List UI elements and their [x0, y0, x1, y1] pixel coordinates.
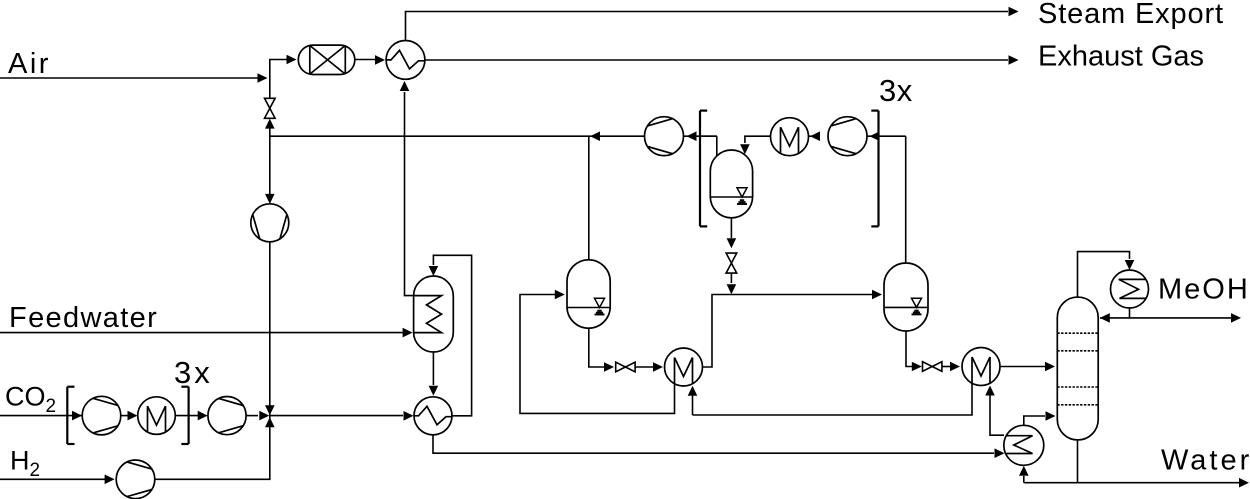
arrow flash into junction	[727, 284, 737, 294]
arrow into separator D2	[872, 290, 882, 300]
wire E4 to E3 bottoms link	[693, 384, 973, 415]
wire hot stream into E3 bottom	[692, 394, 694, 415]
column tray 4	[1057, 404, 1098, 406]
separator vessel D1	[567, 260, 610, 328]
arrow into mix junction from air	[265, 405, 275, 415]
arrow into E5 bottom	[1019, 466, 1029, 476]
arrow into recycle compressor K5	[687, 131, 697, 141]
wire junction up to combustor inlet	[270, 60, 287, 79]
arrow before valve V2	[604, 362, 614, 372]
wire E2 outlet loop to drum top	[433, 255, 471, 415]
wire recycle rail	[270, 135, 717, 137]
arrow CO2 into mix junction	[259, 411, 269, 421]
arrow into bottoms exchanger E5	[995, 448, 1005, 458]
wire H2 compressor to mix junction	[155, 416, 270, 480]
level indicator D1	[567, 307, 610, 309]
wire stage feed drop	[745, 136, 771, 143]
svg-text:Feedwater: Feedwater	[9, 302, 158, 334]
wire valve V4 to exchanger E4	[942, 366, 950, 368]
flue gas heat exchanger E1	[386, 41, 425, 80]
arrow into CO2 compressor	[72, 411, 82, 421]
svg-text:Steam Export: Steam Export	[1038, 0, 1224, 30]
arrow H2 into mix junction	[265, 417, 275, 427]
arrow into steam drum top	[429, 266, 439, 276]
combustor X1 cross	[309, 46, 311, 75]
syngas heat exchanger E2	[414, 397, 452, 435]
wire H2 line	[0, 478, 105, 480]
wire drum bottom to E2 top	[432, 352, 434, 385]
arrow into stage vessel top	[740, 144, 750, 154]
arrow feed into column	[1045, 362, 1055, 372]
wire K2 to motor M1	[121, 415, 128, 417]
wire steam export line	[406, 12, 1009, 41]
CO2 compressor K3	[208, 397, 246, 435]
flash valve V3	[726, 253, 737, 263]
arrow into E3 bottom	[688, 386, 698, 396]
arrow Air into junction	[258, 73, 268, 83]
motor M2	[771, 118, 809, 156]
liquid valve V4	[923, 362, 933, 372]
wire valve V2 to exchanger E3	[635, 366, 653, 368]
svg-text:Exhaust Gas: Exhaust Gas	[1038, 41, 1204, 73]
stage vessel D3	[710, 150, 752, 218]
wire Air inlet	[0, 77, 258, 79]
arrow into H2 compressor	[105, 475, 115, 485]
svg-text:3x: 3x	[879, 73, 913, 108]
arrow preheated feed into column	[1046, 411, 1056, 421]
wire D2 bottoms to valve	[906, 331, 912, 367]
wire valve to air junction	[269, 78, 271, 98]
wire flash valve V3 down	[730, 273, 732, 283]
separator vessel D2	[884, 263, 928, 331]
purge valve V1	[265, 98, 276, 108]
wire water line	[1024, 482, 1239, 484]
wire feedwater line	[0, 332, 404, 334]
wire bottoms up into E5	[1023, 476, 1025, 483]
arrow before flash valve V3	[727, 238, 737, 248]
level indicator D3	[710, 196, 752, 198]
arrow into separator D1	[555, 290, 565, 300]
arrow into air compressor	[265, 194, 275, 204]
svg-text:Air: Air	[8, 48, 51, 80]
wire D1 bottoms to valve	[589, 328, 604, 367]
wire CO2 line	[0, 415, 82, 417]
wire preheated feed into column	[1024, 416, 1045, 426]
steam drum coil	[414, 296, 442, 333]
arrow feedwater into steam drum	[403, 328, 413, 338]
level indicator D2	[884, 306, 928, 308]
arrow into heat exchanger E2	[404, 411, 414, 421]
wire motor M2 to compressor K6	[809, 135, 821, 137]
wire hot stream into E4 bottom	[990, 394, 1004, 435]
heat exchanger E4	[962, 348, 1000, 386]
CO2 compressor K2	[82, 396, 121, 435]
wire stage vessel offgas drop	[716, 136, 718, 156]
arrow into E2 top	[429, 386, 439, 396]
loop compressor K6	[828, 117, 867, 156]
arrow reflux into column	[1100, 313, 1110, 323]
combustor X1 vessel	[298, 45, 355, 74]
svg-text:3x: 3x	[174, 355, 213, 390]
wire column bottoms	[1077, 440, 1079, 483]
wire K6 to corner	[867, 135, 906, 137]
arrow into condenser E6	[1125, 260, 1135, 270]
bracket right stage 3x	[877, 111, 879, 227]
bottoms exchanger E5	[1004, 425, 1044, 465]
wire air compressor to mix junction	[269, 242, 271, 416]
arrow into motor M1	[128, 411, 138, 421]
column tray 2	[1057, 350, 1098, 352]
arrow into CO2 compressor K3	[198, 411, 208, 421]
svg-text:MeOH: MeOH	[1158, 274, 1250, 306]
distillation column C1	[1057, 297, 1098, 440]
arrow into combustor	[287, 55, 297, 65]
arrow steam into flue exchanger	[400, 81, 410, 91]
column tray 3	[1057, 386, 1098, 388]
arrow Steam Export	[1009, 7, 1019, 17]
wire rail into stage vessel	[700, 135, 717, 137]
wire E3 outlet riser	[703, 295, 732, 368]
wire E4 to column	[1000, 366, 1045, 368]
wire combustor to flue heat exchanger	[355, 59, 376, 61]
air compressor K1	[251, 204, 289, 242]
wire recycle rail riser	[269, 121, 271, 136]
arrow into motor M2	[810, 131, 820, 141]
bracket left stage 3x	[699, 111, 701, 227]
wire E3 to separator D2 line	[731, 294, 874, 296]
liquid valve V2	[616, 362, 626, 372]
arrow into flue heat exchanger	[375, 55, 385, 65]
wire cooled syngas line	[433, 435, 994, 453]
wire exhaust gas line	[425, 59, 1008, 61]
wire mix junction to heat exchanger E2	[270, 415, 403, 417]
arrow Exhaust Gas	[1009, 55, 1019, 65]
arrow MeOH out	[1231, 313, 1241, 323]
arrow into valve V1	[265, 119, 275, 129]
condenser E6	[1111, 270, 1149, 308]
wire corner down to separator D2	[905, 136, 907, 264]
bracket right CO2 3x	[188, 387, 190, 444]
arrow before valve V4	[912, 362, 922, 372]
wire stage vessel bottoms	[730, 218, 732, 238]
wire condenser to product line	[1129, 308, 1131, 318]
wire column overhead	[1078, 252, 1130, 297]
arrow on recycle rail	[590, 131, 600, 141]
wire MeOH product line	[1100, 317, 1231, 319]
heat exchanger E3	[665, 348, 703, 386]
arrow into compressor K6	[870, 131, 880, 141]
wire rail down to air compressor	[269, 136, 271, 202]
arrow into exchanger E4	[950, 362, 960, 372]
recycle compressor K5	[645, 117, 684, 156]
wire steam riser	[405, 92, 414, 296]
bracket left CO2 3x	[66, 387, 68, 444]
arrow into exchanger E3	[653, 362, 663, 372]
steam drum B1	[414, 276, 454, 352]
motor M1	[138, 397, 176, 435]
arrow into E4 bottom	[985, 386, 995, 396]
wire heated stream into D1	[520, 295, 675, 414]
wire K3 to mix junction	[246, 415, 258, 417]
arrow Water out	[1239, 478, 1249, 488]
wire motor M1 to K3	[175, 415, 198, 417]
svg-text:Water: Water	[1161, 445, 1250, 477]
column tray 1	[1057, 332, 1098, 334]
H2 compressor K4	[116, 460, 155, 499]
wire rail down to separator D1	[588, 136, 590, 261]
